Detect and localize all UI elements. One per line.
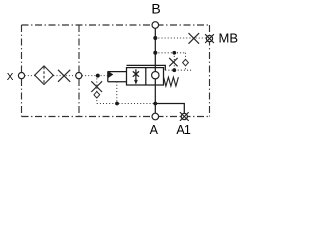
svg-text:A: A xyxy=(150,123,159,137)
svg-text:MB: MB xyxy=(219,30,239,45)
svg-text:A1: A1 xyxy=(176,123,191,137)
svg-text:B: B xyxy=(151,1,160,17)
svg-text:X: X xyxy=(7,72,14,83)
